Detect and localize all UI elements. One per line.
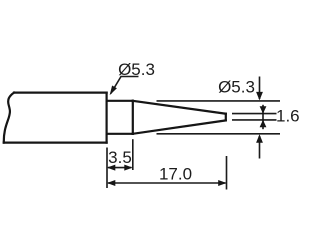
- right Ø5.3 lower dimension line: [259, 136, 261, 159]
- leader line for left diameter label: [111, 77, 139, 94]
- barrel top line: [14, 91, 107, 93]
- collar bottom line: [107, 133, 133, 135]
- arrowhead up onto bottom extension line: [256, 134, 263, 142]
- 1.6 dimension vertical line: [262, 105, 264, 129]
- svg-text:17.0: 17.0: [159, 164, 192, 183]
- right Ø5.3 upper dimension line: [259, 77, 261, 100]
- collar right edge: [132, 101, 134, 134]
- 1.6 lower extension line: [232, 119, 277, 121]
- barrel right edge: [105, 93, 107, 143]
- arrowhead up for 1.6 lower: [260, 120, 267, 127]
- barrel bottom line: [4, 142, 107, 144]
- extension line below collar edge: [132, 139, 134, 170]
- 1.6 upper extension line: [232, 113, 277, 115]
- extension line below tip end: [226, 156, 228, 190]
- 17.0 dimension line: [108, 182, 226, 184]
- svg-text:3.5: 3.5: [108, 148, 132, 167]
- arrowhead right for 3.5: [124, 165, 132, 171]
- top extension line (right Ø5.3): [157, 100, 281, 102]
- leader arrowhead at collar corner: [110, 86, 117, 96]
- barrel wavy break edge: [4, 93, 14, 143]
- tip end face: [225, 114, 227, 121]
- svg-text:Ø5.3: Ø5.3: [218, 78, 255, 97]
- arrowhead right for 17.0: [218, 180, 226, 186]
- extension line below barrel edge: [106, 148, 108, 189]
- 3.5 dimension line: [108, 167, 132, 169]
- bottom extension line (right Ø5.3): [157, 133, 281, 135]
- arrowhead down onto top extension line: [256, 92, 263, 101]
- collar top line: [107, 100, 133, 102]
- cone bottom edge: [133, 120, 226, 133]
- arrowhead left for 3.5: [107, 165, 115, 171]
- arrowhead left for 17.0: [107, 180, 115, 186]
- cone top edge: [133, 101, 226, 114]
- svg-text:1.6: 1.6: [276, 106, 300, 125]
- arrowhead down for 1.6 upper: [260, 106, 267, 113]
- svg-text:Ø5.3: Ø5.3: [118, 60, 155, 79]
